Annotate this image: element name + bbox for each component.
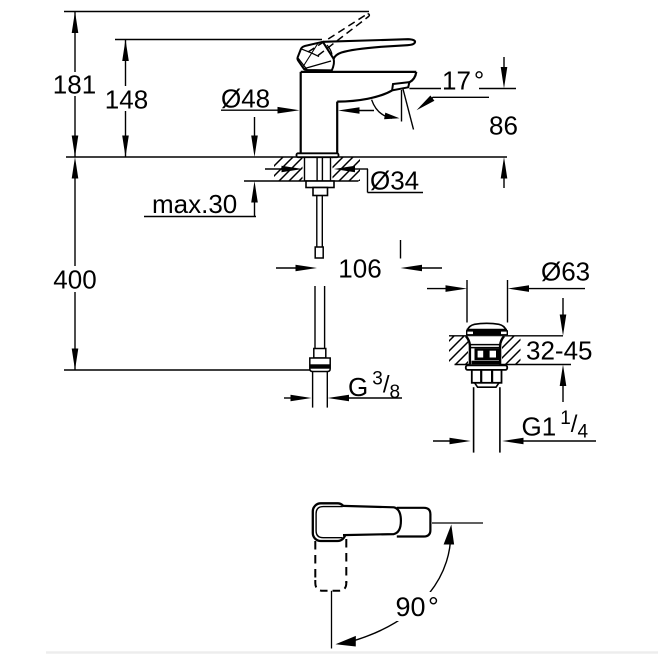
dia34 leader vertical [367,169,369,193]
drain flange [466,365,507,370]
max.30 arrow up (counter bottom) [254,199,256,217]
G3/8 arrow left-pointing [346,397,402,399]
pop-up rod [316,196,318,248]
max.30 underline leader [144,216,256,218]
shank right edge [330,157,332,181]
G3/8 connector nut [310,358,330,372]
mounting nut [306,181,334,188]
faucet spout underside [337,90,392,101]
counter hatch band [274,158,360,182]
angle arc arrowhead [384,113,399,120]
drain locknut [472,370,502,383]
drain neck shoulder lines [471,344,500,346]
spout level extension line left seg [409,88,441,90]
dim 48 arrow right-pointing [221,109,280,111]
dimension 148 line [125,40,127,87]
dashed handle bottom cap [315,580,346,591]
svg-text:90°: 90° [396,592,439,622]
drain hatch left [449,336,468,364]
faucet column left edge [300,72,302,153]
arc arrowhead top [444,524,456,545]
dia63 extension line left [466,280,468,323]
17deg leader line [421,97,489,106]
faucet dashed raised lever line B [318,16,369,56]
knuckle facet line 5 [303,44,318,68]
spout level extension line right seg [479,88,516,90]
arc arrowhead bottom [335,636,357,648]
knuckle facet line 4 [327,45,332,55]
handle top-view arm mid section [343,506,401,535]
extension line top (lever raised level) [64,11,369,13]
locknut slot lines [480,370,482,383]
faucet spout right edge [409,72,416,82]
hose crimp [314,349,326,359]
dim 34 arrow left-pointing [352,168,368,170]
faucet dashed raised lever line A [308,14,368,52]
G3/8 arrow right-pointing [284,397,293,399]
faint bottom card edge [46,651,658,653]
faucet column right edge [336,102,338,154]
dimension 148 arrow down [122,136,129,158]
centerline below handle [331,591,333,649]
dim 106 arrow right-pointing [276,267,297,269]
handle top-view base inner [316,507,342,538]
drain neck white fill [466,336,504,364]
svg-text:max.30: max.30 [152,189,237,219]
pop-up rod upper [316,157,318,196]
knuckle facet line 1 [301,49,319,57]
counter top line (drain) [449,335,563,337]
svg-text:32-45: 32-45 [526,336,593,366]
G1 1/4 arrow left-pointing [520,440,596,442]
faucet lever blade [323,39,415,59]
text mask for 90 deg [391,592,441,621]
dim 32-45 arrow down [562,298,564,317]
supply hose [314,286,316,349]
handle top-view arm end cap [397,508,431,537]
water stream vertical line [401,90,403,122]
drain taper [475,383,499,387]
knuckle facet line 3 [304,61,331,69]
extension line hose end [64,369,327,371]
shank left edge [304,157,306,181]
svg-text:400: 400 [53,265,96,295]
drain cap skirt dark band [466,330,508,335]
dim 32-45 arrow up [562,383,564,402]
G1 1/4 arrow right-pointing [433,440,452,442]
counter hole white gap [303,156,333,182]
svg-text:Ø63: Ø63 [541,257,590,287]
svg-text:Ø34: Ø34 [370,166,419,196]
G3/8 thread pipe [312,372,314,408]
dia63 arrow right-pointing [427,288,448,290]
faucet spout beak [392,82,409,90]
dim 106 extension line (outlet axis) [400,240,402,259]
counter bottom line [244,180,359,182]
drain overflow window [475,348,501,360]
svg-text:Ø48: Ø48 [221,84,270,114]
handle top-view base outer [313,503,346,541]
water stream 17deg line [403,89,414,130]
dim 86 arrow down (spout level) [503,57,505,70]
dim 34 arrow right-pointing [265,168,285,170]
dimension 400 arrow down [72,349,79,371]
counter bottom line (drain) [455,364,572,366]
extension line lever rest level [115,39,322,41]
svg-text:106: 106 [338,254,381,284]
svg-text:G11/4: G11/4 [522,408,589,443]
svg-text:17°: 17° [442,66,484,96]
drain cap dome [467,323,506,330]
dim 86 arrow up (counter) [503,175,505,188]
drain hatch right [502,336,521,364]
dim 106 arrow left-pointing [421,267,442,269]
drain cap dome base thick line [467,329,508,332]
faucet lever knuckle [297,42,334,71]
faucet base plate [297,153,339,157]
faucet body top line [301,71,417,73]
counter top line [66,156,507,158]
knuckle facet line 2 [298,58,307,70]
svg-text:148: 148 [105,85,148,115]
dashed handle position right [345,539,347,583]
dimension 148 arrow up [122,40,129,62]
pop-up rod end cap [315,247,323,258]
dimension 400 line lower [74,292,76,370]
hose fitting [313,188,328,196]
drain neck left edge [466,336,470,364]
90 deg arc [344,530,451,644]
17deg leader arrowhead [417,96,435,111]
faucet dashed lever tip [368,14,370,16]
angle arc [372,100,392,119]
drain tailpipe [473,387,475,452]
drain neck lower collar [472,361,502,365]
dia63 arrow left-pointing [526,288,585,290]
dimension 400 arrow up [72,157,79,179]
svg-text:86: 86 [489,111,518,141]
drain neck right edge [500,336,504,364]
dim 48 arrow left-pointing [355,110,374,112]
max.30 arrow down (counter top) [254,117,256,138]
dimension 181 arrow down [72,136,79,158]
dia34 leader underline [368,192,424,194]
G3/8 nut dark band [310,364,330,368]
dashed handle position left [314,541,316,583]
dia63 extension line right [507,280,509,323]
svg-text:181: 181 [53,70,96,100]
reference line right [432,522,483,524]
dimension 181 arrow up [72,12,79,34]
dimension 181 line [74,12,76,73]
